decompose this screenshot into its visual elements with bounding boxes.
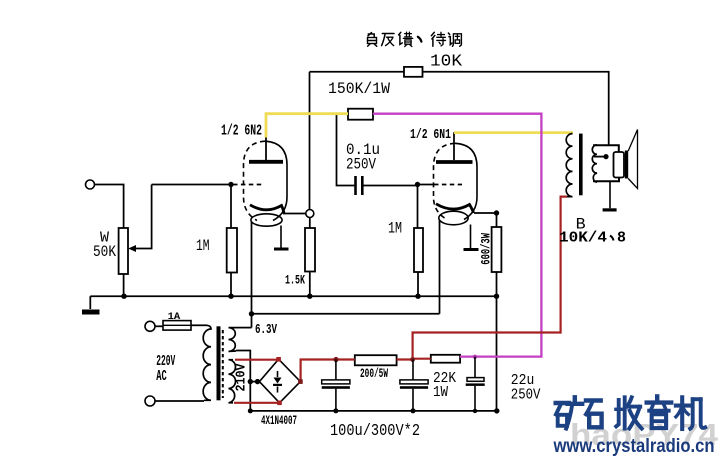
svg-text:8: 8 <box>617 230 626 247</box>
wire fuse to transformer <box>191 324 207 326</box>
wire grid 6N1 <box>418 184 435 186</box>
transformer T1 primary winding <box>566 134 572 197</box>
wire 6.3V winding bottom lead <box>236 351 250 412</box>
capacitor C4 bottom plate <box>466 383 485 386</box>
capacitor C4 22u leads <box>474 357 476 411</box>
svg-text:600/3W: 600/3W <box>479 233 494 265</box>
speaker coil box <box>614 152 625 178</box>
wire 6N1 heater drop <box>439 220 441 314</box>
tube V2 base ellipse <box>439 211 468 225</box>
svg-text:AC: AC <box>156 368 167 385</box>
svg-text:10K: 10K <box>430 53 463 72</box>
svg-text:1.5K: 1.5K <box>285 273 305 288</box>
svg-text:1M: 1M <box>388 220 402 238</box>
fuse F1 body <box>163 321 191 331</box>
cjk char dai <box>431 32 445 46</box>
wire NFB vertical to cathode <box>309 72 311 210</box>
tube V1 plate bar <box>249 160 283 164</box>
resistor 1.5K body <box>305 228 315 272</box>
svg-text:100u/300V*2: 100u/300V*2 <box>330 422 420 441</box>
capacitor C3 top plate <box>400 380 428 384</box>
svg-text:1/2 6N1: 1/2 6N1 <box>410 127 451 143</box>
wire 6N1 cathode lead <box>474 212 497 214</box>
wire 6N2 plate lead <box>265 137 267 160</box>
wire 10K to speaker drop <box>423 72 609 146</box>
tube V2 filament bar <box>464 248 479 251</box>
resistor 150K/1W body <box>348 109 373 120</box>
resistor 600/3W body <box>492 227 502 272</box>
resistor 1M R2 body <box>227 228 237 273</box>
tube V2 filament stem <box>470 225 472 249</box>
wire input to pot top <box>95 185 124 229</box>
wire speaker tap lead <box>594 156 606 158</box>
bridge BR1 diamond <box>259 359 300 403</box>
cjk char fan <box>382 34 394 46</box>
node rail-left <box>248 408 253 413</box>
wire 1M R2 bottom lead <box>230 273 232 297</box>
svg-text:250V: 250V <box>346 156 376 174</box>
transformer T2 secondary 210V winding <box>229 360 236 403</box>
wire AC live to fuse <box>155 325 163 327</box>
OPEN-TERMINALS <box>86 180 314 406</box>
brand char kuang <box>556 397 583 428</box>
brand char shou <box>616 397 642 428</box>
svg-text:210V: 210V <box>234 363 250 391</box>
svg-text:200/5W: 200/5W <box>360 366 388 381</box>
wire wiper to grid <box>133 185 152 249</box>
node B+2 dot <box>410 357 415 362</box>
wire speaker ground stem <box>609 181 611 208</box>
node 1.5K-gnd <box>307 294 312 299</box>
tube V1 base ellipse <box>251 214 282 226</box>
brand char ji <box>676 397 705 429</box>
wire yellow plate V1 to 150K <box>266 114 348 138</box>
transformer T2 primary winding <box>203 325 211 400</box>
wire yellow plate V2 to OPT <box>454 131 573 134</box>
wire 1M R6 top lead <box>417 185 419 229</box>
capacitor C4 top plate <box>467 378 484 382</box>
node rail-c2 <box>333 408 338 413</box>
GROUND-SYMBOLS <box>82 208 617 314</box>
tube V1 envelope left dashed <box>244 141 266 220</box>
transformer T2 secondary 6.3V winding <box>229 328 237 352</box>
transformer T1 secondary winding <box>592 145 597 182</box>
svg-text:6.3V: 6.3V <box>255 322 277 338</box>
cjk char dunhao <box>418 37 422 42</box>
bridge BR1 dc minus dot1 <box>248 379 253 384</box>
tube V1 filament bar <box>274 248 289 251</box>
wire pot bottom lead <box>123 274 125 296</box>
speaker magnet bar <box>625 151 628 179</box>
svg-text:250V: 250V <box>511 387 541 404</box>
watermark cjk brand <box>556 396 706 429</box>
node grid2 <box>415 182 420 187</box>
wire red 210V bottom <box>234 402 280 404</box>
wire speaker bottom lead <box>593 178 619 182</box>
TUBE-V1 6N2 <box>233 141 289 249</box>
wire ground bus <box>90 295 496 297</box>
wire NFB top from junction to 10K <box>310 71 405 73</box>
input jack <box>86 180 95 189</box>
node grid1 <box>228 182 233 187</box>
wire 0.1u left lead <box>337 114 355 186</box>
wire heater line 6.3V <box>252 313 440 315</box>
resistor 1M R6 body <box>414 228 423 272</box>
wire 1M R2 top lead <box>230 185 232 229</box>
tube V2 cathode arc <box>436 204 474 213</box>
POWER-TRANSFORMER T2 <box>203 325 236 403</box>
svg-text:www.crystalradio.cn: www.crystalradio.cn <box>553 436 715 457</box>
svg-text:150K/1W: 150K/1W <box>328 80 390 98</box>
transformer T2 core bar <box>217 326 221 400</box>
brand char yin <box>647 396 672 428</box>
node 22u top dot <box>473 355 477 359</box>
tube V2 plate bar <box>436 160 473 164</box>
wire speaker top lead <box>593 145 619 152</box>
resistor 200/5W body <box>355 355 397 365</box>
JUNCTION-DOTS <box>121 154 608 414</box>
capacitor C3 bottom plate <box>400 386 428 389</box>
tube V1 envelope right <box>265 141 287 220</box>
RESISTORS <box>119 67 502 365</box>
wire 6N1 plate lead <box>453 132 455 160</box>
ground speaker bar <box>603 208 617 211</box>
node 1M-gnd <box>228 294 233 299</box>
tube V2 envelope right <box>455 143 477 219</box>
tube V1 filament stem <box>280 226 282 249</box>
cjk char kui <box>399 32 413 46</box>
CAPACITOR 0.1u plates <box>356 176 363 195</box>
svg-text:1A: 1A <box>168 312 181 323</box>
wire red B+ from OPT <box>413 197 567 360</box>
bridge BR1 dc minus dot2 <box>255 379 260 384</box>
fuse F1 inner line <box>163 324 191 326</box>
BRIDGE-RECTIFIER <box>259 359 300 403</box>
wire cathode circle to 1.5K <box>309 218 311 229</box>
capacitor C3 100u leads <box>412 360 414 411</box>
brand char shi <box>586 401 602 428</box>
node speaker tap <box>603 154 608 159</box>
WATERMARK <box>553 396 719 456</box>
AC terminal bottom <box>145 396 155 406</box>
wire red bridge to filter <box>301 360 355 382</box>
resistor 10K NFB body <box>404 67 423 77</box>
capacitor C2 100u leads <box>335 360 337 411</box>
svg-text:1/2 6N2: 1/2 6N2 <box>221 123 262 140</box>
tube V2 grid dashes <box>434 184 462 186</box>
node rail-c4 <box>473 409 477 413</box>
node pot-gnd <box>121 294 126 299</box>
resistor 22K body <box>431 355 460 363</box>
OUTPUT-TRANSFORMER T1 <box>566 134 597 197</box>
wire red 200/5W to 22K <box>397 358 431 361</box>
wire 0.1u right lead <box>363 185 418 187</box>
node bus-end <box>494 294 499 299</box>
wire bridge DC minus link <box>250 381 259 383</box>
bridge BR1 corner dot right <box>298 379 303 384</box>
svg-text:1W: 1W <box>433 384 448 401</box>
tube V1 cathode arc <box>250 205 284 214</box>
WIRES-BLACK <box>90 72 608 412</box>
node 1M2-gnd <box>415 294 420 299</box>
wire 6.3V winding top lead <box>236 327 252 329</box>
TUBE-V2 6N1 <box>434 143 479 249</box>
wire ground stem <box>89 296 91 309</box>
AC terminal top <box>145 321 155 331</box>
node B+ dot <box>333 357 338 362</box>
bridge BR1 diode lead top <box>277 371 279 377</box>
wire 1.5K bottom lead <box>309 272 311 297</box>
capacitor C1 plate left <box>354 176 357 195</box>
wire 6N2 cathode lead <box>283 213 306 215</box>
svg-text:50K: 50K <box>93 243 116 261</box>
tube V1 grid dashes <box>233 184 262 186</box>
wire red 210V top <box>235 359 279 361</box>
wire magenta 150K to 22K <box>373 114 541 357</box>
cjk char diao <box>448 33 461 46</box>
TITLE-CJK 负反馈、待调 <box>368 32 462 46</box>
wire grid 6N2 <box>152 184 232 186</box>
wire 1M R6 bottom lead <box>417 272 419 296</box>
bridge BR1 diode lead bottom <box>277 387 279 393</box>
wire 6N2 heater drop <box>251 222 253 328</box>
node heater-branch <box>249 311 254 316</box>
wire bottom rail <box>250 410 496 412</box>
svg-text:4X1N4007: 4X1N4007 <box>261 413 297 428</box>
cjk char fu <box>368 33 377 47</box>
capacitor C1 plate right <box>361 176 364 195</box>
node cathode2 <box>494 210 499 215</box>
speaker cone <box>628 130 637 189</box>
node rail-c3 <box>411 408 416 413</box>
tube V2 envelope left dashed <box>434 143 456 219</box>
capacitor C2 bottom plate <box>322 386 350 389</box>
potentiometer wiper arrow <box>128 245 136 252</box>
svg-text:1M: 1M <box>196 237 210 255</box>
svg-text:10K/4: 10K/4 <box>559 230 607 247</box>
transformer T1 core bar <box>579 134 583 196</box>
bridge BR1 corner dot bottom <box>277 401 282 406</box>
bridge BR1 diode triangle <box>274 378 282 384</box>
wire AC neutral <box>155 400 204 402</box>
bridge BR1 diode bar <box>273 384 282 386</box>
bridge BR1 corner dot top <box>276 357 281 362</box>
node rail-end <box>494 408 499 413</box>
ground main bar <box>82 310 100 315</box>
capacitor C2 top plate <box>322 380 350 384</box>
label comma cjk <box>610 236 614 241</box>
transformer T2 core dashed <box>222 330 224 398</box>
node cathode1 circle <box>306 210 314 218</box>
wire 600ohm vertical <box>496 213 498 411</box>
potentiometer W 50K body <box>119 228 128 274</box>
